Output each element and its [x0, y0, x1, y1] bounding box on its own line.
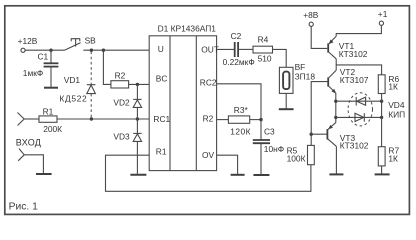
svg-text:Рис. 1: Рис. 1 — [9, 201, 38, 212]
svg-text:1К: 1К — [388, 82, 398, 92]
wire RC2 pin — [217, 84, 262, 141]
node VD4 left top — [334, 100, 337, 103]
capacitor C2 — [223, 31, 255, 67]
wire R1 pin to bottom rail — [106, 155, 311, 191]
svg-text:R4: R4 — [258, 34, 269, 44]
transistor VT1 KT3102 — [328, 36, 368, 59]
wire input line to RC1 — [57, 118, 149, 120]
svg-text:+12В: +12В — [18, 36, 38, 46]
diode VD2 — [113, 84, 141, 119]
wire VT1 emitter to VT2 collector — [335, 59, 337, 70]
svg-text:R1: R1 — [156, 147, 167, 157]
node R2 junction top — [102, 49, 105, 52]
ground under R7 — [375, 173, 390, 175]
ground under input 2 — [36, 173, 52, 175]
svg-text:BC: BC — [156, 74, 168, 84]
node VD4 left bottom — [334, 116, 337, 119]
ground under VT3 — [329, 173, 343, 175]
svg-text:R2: R2 — [203, 114, 214, 124]
wire R6 to VD4 to R7 — [381, 94, 383, 147]
terminal +8V — [303, 10, 319, 26]
node RC2-R3-C3 junction — [259, 118, 262, 121]
svg-text:R1: R1 — [43, 106, 54, 116]
svg-text:100К: 100К — [287, 154, 306, 164]
wire VT2 emitter to VD4 left — [335, 94, 337, 123]
node VT2/VT3 base and R5 junction — [310, 133, 313, 136]
wire R2 to BC pin — [129, 83, 150, 85]
resistor R1 — [39, 106, 62, 134]
svg-text:SB: SB — [85, 36, 97, 46]
svg-text:КИП: КИП — [388, 110, 405, 120]
wire R4 to BF — [273, 49, 287, 67]
node VD4 right bottom — [380, 116, 383, 119]
svg-text:КД522: КД522 — [59, 94, 87, 104]
svg-text:200К: 200К — [43, 124, 62, 134]
svg-text:C2: C2 — [231, 31, 242, 41]
svg-text:ВХОД: ВХОД — [16, 137, 41, 147]
wire OUT pin — [217, 48, 235, 50]
resistor R7 — [378, 145, 399, 174]
svg-text:+1: +1 — [378, 9, 388, 19]
resistor R3* — [228, 105, 251, 136]
wire R3 to C3 node — [250, 119, 261, 121]
switch SB — [65, 36, 97, 51]
node C1 junction — [49, 49, 52, 52]
svg-text:0.22мкФ: 0.22мкФ — [223, 57, 255, 67]
wire OV pin to ground — [217, 155, 238, 175]
wire VD4 top line — [336, 100, 382, 102]
node VD2 top junction — [136, 83, 139, 86]
input arrow 1 — [18, 113, 25, 126]
svg-text:D1 КР1436АП1: D1 КР1436АП1 — [158, 24, 217, 34]
wire top rail left — [25, 49, 64, 51]
svg-text:RC1: RC1 — [153, 114, 170, 124]
resistor R5 — [287, 145, 315, 164]
ground under BF — [279, 108, 294, 110]
terminal +12V — [18, 36, 38, 52]
svg-text:R3*: R3* — [234, 105, 249, 115]
svg-text:120К: 120К — [230, 127, 251, 137]
terminal +1 — [378, 9, 388, 25]
wire C2 to R4 — [238, 48, 253, 50]
input arrow 2 — [18, 149, 24, 161]
svg-text:1К: 1К — [388, 154, 398, 164]
svg-text:C3: C3 — [264, 127, 275, 137]
svg-text:510: 510 — [258, 54, 272, 64]
wire R2 drop — [103, 50, 111, 84]
capacitor C3 — [253, 127, 284, 175]
node VD4 right top — [380, 100, 383, 103]
diode VD3 — [113, 119, 141, 175]
wire top rail right of SB — [83, 49, 149, 51]
wire VT1 collector to +1 rail — [336, 25, 381, 36]
svg-text:+8В: +8В — [303, 10, 319, 20]
node VD1 bottom junction — [90, 117, 93, 120]
svg-text:C1: C1 — [38, 51, 49, 61]
svg-text:OV: OV — [202, 150, 215, 160]
ground under C1 — [44, 87, 58, 89]
piezo BF ZP18 — [279, 62, 315, 109]
svg-text:ЗП18: ЗП18 — [295, 72, 316, 82]
svg-text:КТ3107: КТ3107 — [340, 75, 369, 85]
svg-text:10нФ: 10нФ — [264, 144, 284, 154]
wire input2 to ground — [24, 155, 43, 174]
wire VT3 emitter to ground — [335, 146, 337, 174]
svg-text:VD2: VD2 — [113, 98, 130, 108]
wire dashed VD1 link — [90, 52, 92, 119]
ground under C3 — [253, 174, 269, 176]
resistor R6 — [378, 74, 399, 93]
wire VT2 base line — [311, 82, 328, 146]
svg-text:КТ3102: КТ3102 — [339, 49, 368, 59]
ground under OV — [231, 174, 245, 176]
wire VD4 bottom line — [336, 116, 382, 118]
transistor VT2 KT3107 — [328, 67, 369, 93]
node VD1 junction top — [90, 49, 93, 52]
svg-text:VD4: VD4 — [388, 100, 405, 110]
resistor R2 — [111, 71, 129, 88]
wire VT3 base — [311, 133, 327, 135]
transistor VT3 KT3102 — [327, 123, 368, 151]
svg-text:R2: R2 — [115, 71, 126, 81]
svg-text:VD1: VD1 — [64, 75, 81, 85]
ground under VD3 — [130, 174, 146, 176]
svg-text:VD3: VD3 — [113, 132, 130, 142]
wire +8V to VT1 base — [311, 26, 327, 48]
IC D1 KR1436AP1 — [149, 24, 219, 171]
svg-text:RC2: RC2 — [200, 77, 217, 87]
svg-text:U: U — [158, 44, 164, 54]
resistor R4 — [253, 34, 273, 63]
node VD2-VD3 junction — [136, 117, 139, 120]
LED VD4 KIP (bicolor, dashed ellipse) — [348, 93, 405, 126]
svg-text:OUT: OUT — [201, 44, 219, 54]
wire tap to R6 — [336, 65, 381, 75]
svg-text:1мкФ: 1мкФ — [23, 68, 43, 78]
wire input to R1 — [24, 118, 39, 120]
capacitor C1 — [23, 50, 59, 87]
wire R2 pin to R3 — [217, 119, 229, 121]
svg-text:КТ3102: КТ3102 — [340, 140, 369, 150]
diode VD1 KD522 — [59, 75, 95, 104]
